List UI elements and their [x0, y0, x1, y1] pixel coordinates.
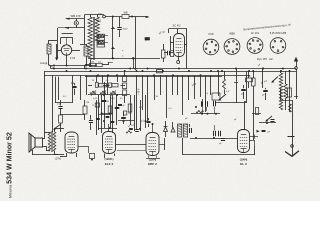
wire R4 bottom [60, 123, 62, 132]
wire det v1 [203, 107, 207, 114]
wire down from switch [58, 28, 65, 59]
svg-text:EBF 2: EBF 2 [148, 162, 157, 166]
resistor R18 [123, 111, 132, 115]
wire col x88 [86, 75, 88, 95]
resistor R5 [83, 100, 87, 120]
resistor R9 [112, 84, 118, 87]
wire h 113 [102, 113, 113, 115]
capacitor C22 [129, 129, 133, 130]
wire bottom left [32, 150, 58, 155]
resistor R17 [92, 103, 100, 107]
capacitor C1 [117, 28, 128, 31]
wire col x130b [130, 95, 132, 125]
wire h 97 [88, 94, 130, 96]
capacitor C25 [262, 131, 271, 134]
poti P1 [90, 91, 96, 96]
bus wire mid [44, 71, 296, 73]
resistor R4 [59, 115, 63, 123]
label V5a [149, 158, 157, 162]
resistor R11 [246, 76, 253, 82]
wire col x140 [140, 100, 142, 131]
bus wire top [51, 68, 296, 70]
svg-text:FC8: FC8 [209, 32, 214, 36]
wire bus left end [45, 66, 51, 133]
capacitor C19 [219, 139, 225, 146]
label div1 [92, 80, 109, 82]
ground circle [291, 145, 294, 148]
lamp L1 [74, 21, 78, 25]
output transformer T2 sec [53, 132, 56, 151]
resistor R3 line [122, 12, 129, 19]
switch triangle [55, 58, 59, 61]
box grid stopper [162, 44, 166, 62]
wire col x160 [160, 75, 162, 95]
wire to tube top [66, 38, 68, 45]
wire mains drop [134, 17, 136, 70]
wire S4 [224, 90, 226, 94]
diode D2 [171, 122, 175, 132]
poti P2 [110, 91, 116, 96]
mains arrow [137, 16, 150, 18]
label 40V [138, 88, 141, 95]
label v9 [120, 98, 123, 100]
wire col x134 [134, 95, 136, 131]
wire mains [105, 16, 122, 18]
resistor R6 [90, 61, 96, 66]
capacitor C10 [241, 85, 246, 99]
box bias [171, 51, 174, 57]
transformer T1 core [94, 17, 95, 60]
wire col x110b [110, 95, 112, 128]
ground bar [288, 136, 295, 138]
wire col x263 [262, 69, 264, 89]
wire spk bottom [43, 146, 51, 151]
svg-text:1M: 1M [247, 76, 250, 78]
wire V4 pins [105, 154, 115, 159]
svg-text:5000: 5000 [123, 29, 129, 31]
wire osc bottom [86, 56, 88, 66]
label slanted note [243, 22, 292, 31]
wire R11 [248, 71, 250, 88]
svg-text:1M: 1M [86, 102, 89, 104]
wire col x52 [52, 75, 54, 132]
wire V4V5 link [116, 145, 147, 151]
wire T1T2 link [78, 146, 89, 153]
ground arrow [285, 151, 299, 157]
wire V3 pins [60, 153, 77, 157]
svg-text:1M: 1M [91, 61, 94, 63]
wire lamp right [84, 19, 86, 44]
output transformer core [52, 131, 53, 152]
wire loop top [190, 137, 238, 139]
label WB 479 [71, 14, 81, 18]
wire tube right [72, 50, 80, 52]
wire col x96b [96, 100, 98, 135]
wire col x98 [96, 75, 98, 82]
output transformer T2 pri [48, 132, 51, 151]
label SC42 [173, 24, 181, 28]
antenna circle [295, 67, 298, 70]
svg-text:ELF 2: ELF 2 [105, 162, 114, 166]
label v2 [156, 96, 159, 98]
label mf [146, 39, 149, 42]
transformer T1 primary [88, 17, 92, 60]
label v4 [185, 118, 188, 120]
resistor R1b heater [97, 38, 105, 41]
wire xl bottom [88, 57, 160, 59]
wire col x247 [246, 71, 248, 103]
label V5b [148, 162, 157, 166]
capacitor C12 [190, 124, 192, 133]
resistor R13 [288, 88, 292, 97]
electrolytic C9c [123, 90, 127, 96]
capacitor C8 [89, 115, 93, 130]
coil L2 (antenna) [47, 44, 51, 54]
wire V2 bottom [178, 57, 180, 61]
wire h 121 [118, 120, 135, 122]
svg-text:WB: WB [124, 12, 128, 15]
wire col x72 [72, 75, 74, 103]
wire col x167 [166, 75, 168, 118]
speaker LS magnet [35, 138, 43, 147]
bus wire low [44, 75, 250, 77]
capacitor C16 [102, 101, 110, 104]
label v1 [139, 107, 143, 109]
wire rc h2 [259, 122, 276, 124]
label cl2 [141, 120, 145, 123]
wire rows [88, 85, 125, 87]
resistor R10 zig [223, 79, 226, 90]
electrolytic C9b [123, 83, 127, 89]
capacitor C15b [214, 131, 221, 137]
resistor R2 heater [97, 41, 105, 44]
fuse F1 [157, 70, 163, 73]
label V3 [55, 157, 61, 161]
wire rc h1 [252, 113, 261, 115]
label socket UB5 [270, 32, 287, 35]
wire col x183 [182, 75, 184, 115]
dots cl [103, 107, 146, 130]
shield bracket [169, 29, 188, 46]
capacitor C7 [71, 83, 77, 95]
junction d263 [258, 64, 264, 69]
label v8 [86, 102, 89, 104]
wire tube left [57, 44, 62, 58]
label v7 [63, 96, 67, 98]
svg-text:WB 479: WB 479 [71, 14, 81, 18]
svg-text:(1064): (1064) [240, 158, 248, 162]
choke CH2 [284, 71, 287, 98]
capacitor C26 [96, 119, 100, 120]
capacitor C23 [135, 130, 139, 132]
wire col x177b [177, 75, 179, 95]
resistor R14 zig [196, 110, 204, 113]
capacitor C6 [57, 100, 63, 115]
junction bus d [97, 68, 155, 77]
terminal mains [98, 13, 105, 18]
label publisher Minerva (rotated) [6, 132, 14, 198]
wire xfmr top [85, 15, 105, 19]
resistor R8a [95, 83, 98, 88]
switch S4 arm [218, 94, 226, 101]
capacitor C14 [206, 101, 208, 107]
svg-text:100: 100 [98, 13, 103, 16]
junction bus e [188, 70, 291, 76]
ground lead [292, 136, 294, 156]
wire col x108 [103, 75, 108, 95]
wire ot top [55, 128, 65, 132]
label V6a [240, 158, 248, 162]
label v6 [226, 91, 230, 93]
antenna arrow [294, 57, 298, 67]
wire col x55 [55, 77, 57, 103]
wire osc top [80, 44, 87, 46]
transformer T1 secondary [95, 17, 99, 43]
wire front-end bottom rail [49, 65, 96, 67]
junction mains [131, 16, 133, 18]
socket SK2 WB8 [224, 39, 240, 55]
terminal V2 [177, 61, 180, 64]
tube V3 ECH [65, 132, 78, 153]
wire lamp feed [76, 19, 78, 28]
wire loop vert [182, 138, 184, 155]
svg-text:EL 3: EL 3 [240, 162, 247, 166]
wire lamp top [66, 18, 85, 20]
svg-text:LF 101: LF 101 [251, 31, 260, 35]
resistor R1 heater [97, 34, 105, 37]
antenna lead [294, 69, 298, 99]
svg-text:F 62: F 62 [70, 56, 76, 60]
label v5 [205, 93, 209, 95]
label uF45 [261, 80, 269, 84]
box detector [212, 93, 220, 100]
wire col x137 [136, 75, 138, 130]
cap marks [122, 50, 124, 59]
svg-text:WB8: WB8 [229, 32, 235, 36]
junction front-end [53, 65, 87, 67]
wire loop bottom [183, 146, 255, 155]
socket SK4 UB5 [270, 38, 286, 54]
wire col x224 [224, 71, 226, 79]
junction bus b [136, 68, 181, 73]
label socket WB8 [229, 32, 235, 36]
svg-text:5,25 W/W-UB5: 5,25 W/W-UB5 [270, 32, 287, 35]
resistor R8 [99, 84, 107, 88]
label uF40 [192, 83, 198, 87]
wire mains 2 [129, 16, 137, 18]
wire C9 [124, 70, 126, 103]
wire col x104 [104, 82, 106, 128]
capacitor C24 [271, 120, 275, 122]
wire mid [62, 33, 73, 35]
wire V2 right [185, 45, 188, 69]
tube V1 oscillator (top view) [61, 45, 71, 55]
wire col x98b [98, 95, 100, 130]
wire col x142 [142, 75, 144, 110]
switch arm S1 [65, 27, 85, 29]
triangle mark [257, 130, 260, 133]
wire col x236 [234, 69, 238, 103]
socket SK1 FC8 [203, 39, 219, 55]
wire T2 feed [108, 124, 110, 132]
capacitor C15 [214, 101, 216, 107]
tube V2 [174, 34, 185, 57]
capacitor C17 [115, 108, 120, 109]
wire V2 left [170, 36, 174, 50]
wire tube feed box [61, 38, 73, 45]
wire h 115b [98, 114, 110, 116]
wire col x205 [205, 75, 207, 112]
switch S3 arm [53, 124, 61, 130]
wire coil bottom [48, 54, 50, 66]
wire col x200 [200, 75, 202, 97]
blob mark [145, 38, 150, 41]
socket SK3 LF101 [247, 38, 263, 54]
wire det v2 [214, 107, 216, 131]
label Dyn 187 AZ [257, 57, 273, 61]
wire h 128 [98, 127, 117, 129]
wire col x101 [101, 95, 103, 133]
wire right merge [281, 100, 293, 136]
wire col x154 [154, 75, 156, 100]
wire spk top [43, 132, 51, 139]
resistor R12 [252, 71, 256, 140]
wire col x117 [117, 75, 119, 82]
svg-text:Ausgl.: Ausgl. [40, 61, 48, 65]
svg-text:– 40 V: – 40 V [138, 88, 141, 95]
resistor R15 [108, 106, 112, 114]
speaker hatch [31, 135, 32, 151]
resistor R9a [109, 83, 112, 87]
label cl1 [128, 124, 136, 128]
wire col x112 [112, 95, 114, 133]
terminal bottom [90, 154, 95, 161]
svg-text:(2°N): (2°N) [55, 157, 61, 161]
tube V4 ELF2 [103, 132, 116, 154]
wire col x189 [188, 75, 190, 100]
IF coil L5 [183, 124, 187, 137]
svg-text:40,5: 40,5 [96, 19, 102, 23]
wire tube bottom [66, 55, 68, 65]
junction bus a [53, 68, 92, 73]
tube V6 EL3 [238, 130, 250, 153]
resistor R2b heater [97, 44, 105, 47]
capacitor C20 [118, 105, 126, 108]
label V4b [105, 162, 114, 166]
label 40,5 [96, 19, 102, 23]
capacitor C11 [262, 88, 268, 100]
junction bus c [221, 68, 284, 73]
capacitor C18 [121, 112, 126, 124]
wire col x147 [147, 75, 149, 122]
resistor R7 [97, 61, 103, 66]
diode D1 [164, 121, 168, 137]
wire under V5 [146, 156, 160, 159]
electrolytic C9a [123, 76, 127, 82]
label uF40b [158, 30, 165, 35]
wire col x211 [210, 75, 212, 95]
label Apysk [40, 61, 54, 68]
wire col x195 [194, 75, 196, 99]
choke CH1 [279, 71, 282, 110]
wire col x173 [172, 74, 174, 95]
wire cap C1 [119, 17, 121, 38]
coil small [289, 104, 292, 112]
svg-text:(12841): (12841) [105, 157, 114, 161]
wire heater taps [97, 35, 108, 43]
label socket LF101 [251, 31, 260, 35]
svg-text:SC 4/2: SC 4/2 [173, 24, 181, 28]
switch S5 arm [271, 77, 278, 83]
wire col x218 [218, 71, 220, 96]
wire col x123 [116, 95, 118, 125]
wire V6 right [250, 141, 256, 147]
wire heater right v [111, 17, 115, 59]
label F62 [70, 56, 76, 60]
wire col x145 [145, 95, 147, 128]
resistor R16 [128, 104, 132, 112]
switch S6 arm [265, 116, 272, 122]
label socket FC8 [209, 32, 214, 36]
capacitor C28 [111, 122, 115, 123]
capacitor C21 [147, 118, 151, 127]
label V6b [240, 162, 247, 166]
wire choke down [281, 89, 286, 110]
bus wire low2 [85, 76, 222, 78]
capacitor C13 [202, 99, 203, 107]
capacitor C5 [164, 51, 173, 56]
poti P3 [126, 131, 132, 134]
wire ot bottom [55, 151, 65, 155]
wire R6R7 [85, 62, 113, 69]
label V4a [105, 157, 114, 161]
resistor R19 [234, 108, 259, 122]
label v3 [169, 108, 173, 110]
wire col x81 [80, 75, 82, 100]
wire xl v [133, 58, 135, 68]
svg-text:(1264): (1264) [149, 158, 157, 162]
wire V6 top [244, 101, 246, 130]
label div2 [93, 98, 115, 100]
coil L3 (osc) [84, 46, 88, 56]
wire h 103 [215, 102, 245, 104]
wire T3 feed [152, 123, 154, 133]
speaker LS cone [29, 133, 35, 152]
wire col x289 [289, 71, 291, 112]
wire rc h3 [250, 135, 258, 140]
capacitor C27 [106, 117, 110, 118]
junction det [195, 106, 217, 115]
wire h mid-left [56, 103, 86, 115]
wire det h [191, 113, 220, 115]
tube V5 EBF2 [146, 133, 159, 156]
wire col x59 [58, 77, 60, 100]
wire coil top [49, 40, 58, 44]
wire xfmr bottom [90, 60, 92, 67]
poti P1b [100, 91, 106, 96]
wire col x91c [90, 115, 92, 120]
wire V5 right [159, 138, 165, 150]
svg-text:Dyn 187 · AZ: Dyn 187 · AZ [257, 57, 273, 61]
IF coil L4 [178, 124, 182, 137]
